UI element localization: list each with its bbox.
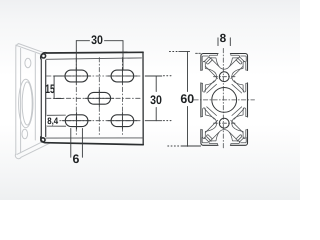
profile bore bottom	[219, 118, 229, 128]
profile webs bottom chamber	[205, 107, 244, 141]
dim 15 left	[54, 76, 63, 99]
plate bottom outer edge	[45, 143, 143, 145]
flange bottom edge	[15, 140, 49, 159]
profile centre bore	[212, 88, 237, 113]
svg-text:8,4: 8,4	[47, 115, 59, 126]
svg-text:8: 8	[220, 31, 227, 45]
plate top edge	[46, 51, 143, 54]
slot top-left	[65, 70, 88, 82]
svg-text:15: 15	[45, 82, 55, 96]
slot crosses	[62, 68, 137, 129]
dim 30 top	[76, 41, 123, 70]
slot channel W lower	[206, 115, 217, 131]
flange left edge	[16, 44, 21, 154]
ghost flange leg (3D view, light gray)	[15, 44, 49, 159]
slots (stadium holes)	[65, 70, 134, 127]
slot cavity W upper	[201, 61, 205, 92]
dash near profile top corner	[196, 52, 201, 54]
cross bottom-left	[62, 112, 91, 129]
profile corner mouth lines	[204, 57, 244, 143]
centreline row mid	[47, 97, 142, 99]
slot middle	[88, 92, 111, 104]
cross middle	[85, 90, 114, 107]
dim 60	[179, 52, 201, 147]
slot channel W upper	[206, 69, 217, 85]
slot channel S	[216, 130, 232, 141]
flange hole top	[25, 58, 31, 67]
dots 60 top	[168, 52, 180, 147]
slot channel E lower	[232, 115, 243, 131]
profile webs top chamber	[205, 58, 244, 93]
label 8,4 mask	[46, 116, 59, 125]
slot channel N	[216, 58, 232, 69]
top-left corner curl	[41, 53, 47, 59]
cross top-left	[62, 68, 91, 85]
slot channel E upper	[232, 69, 243, 85]
centreline col mid	[98, 58, 100, 137]
chamber centre line horizontals	[214, 77, 236, 124]
main plate outline	[41, 52, 144, 145]
plate bottom front line	[46, 137, 143, 139]
slot cavity N	[209, 54, 240, 58]
dim 30 right	[145, 76, 162, 121]
flange hole bottom	[22, 129, 28, 139]
plate right edge	[142, 52, 144, 144]
flange big hole	[19, 79, 33, 127]
cross bottom-right	[108, 112, 137, 129]
svg-text:30: 30	[150, 93, 162, 107]
profile centre line horizontal	[194, 99, 255, 101]
slot top-right	[111, 70, 134, 82]
dim 8,4	[47, 115, 65, 126]
profile bore top	[219, 72, 229, 82]
dots right dim	[164, 76, 172, 121]
dim 8 profile	[218, 38, 230, 46]
profile corner inner walls	[202, 56, 246, 143]
slot cavity E lower	[243, 108, 247, 139]
flange big hole inner	[22, 82, 32, 125]
flange face edge	[34, 54, 36, 141]
slot cavity W lower	[201, 108, 205, 139]
centreline col left	[75, 58, 77, 137]
profile corner hook channels	[207, 58, 242, 142]
svg-text:60: 60	[180, 92, 194, 106]
cross top-right	[108, 68, 137, 85]
slot bottom-right	[111, 115, 134, 127]
svg-text:6: 6	[72, 152, 79, 166]
slot bottom-left	[65, 115, 88, 127]
slot cavity S	[209, 141, 240, 145]
centreline col right	[121, 58, 123, 137]
flange top edge	[16, 44, 44, 55]
slot cavity E upper	[243, 61, 247, 92]
centreline row top	[47, 75, 142, 77]
profile outer contour	[201, 54, 248, 146]
plate top inner line	[46, 58, 142, 59]
centreline row bottom	[47, 120, 142, 122]
profile centre line vertical	[222, 48, 224, 149]
bottom-left corner curl	[41, 137, 46, 143]
dashed centre lines of plate	[47, 58, 142, 137]
plate left bend edge	[41, 60, 45, 138]
dim 6 bottom	[71, 129, 83, 158]
svg-text:30: 30	[91, 33, 103, 47]
